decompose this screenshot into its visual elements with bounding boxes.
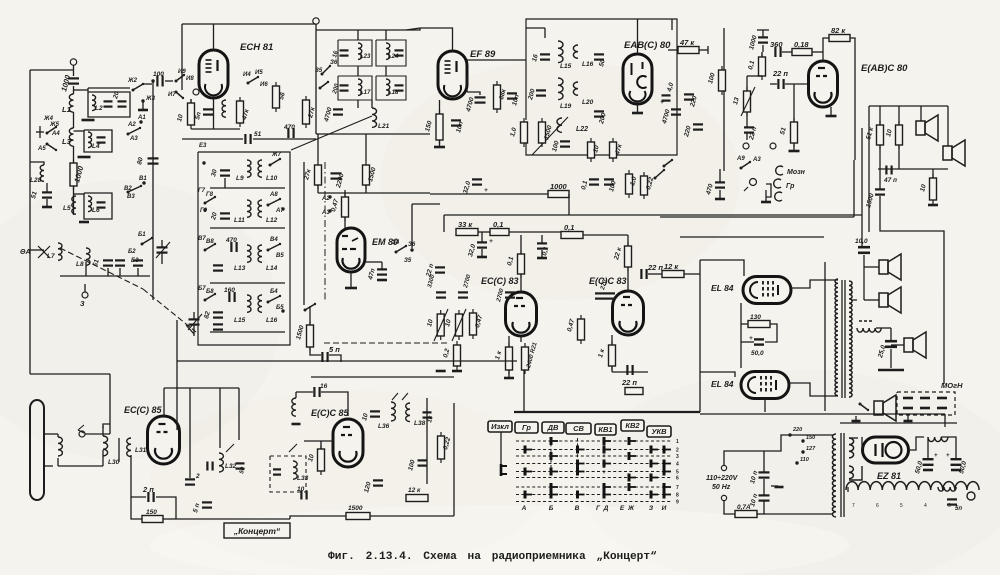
- contact G9: [203, 208, 206, 211]
- svg-text:E(AB)C 80: E(AB)C 80: [861, 63, 908, 74]
- ground: [42, 206, 52, 209]
- coupling coil left: [58, 437, 62, 456]
- svg-text:L15: L15: [560, 63, 572, 70]
- ground: [477, 256, 487, 259]
- wire: [793, 143, 795, 150]
- wire 1500 up: [365, 134, 367, 161]
- resistor 1.0: [521, 118, 528, 147]
- trimmer arrow: [156, 242, 170, 258]
- wire: [509, 231, 561, 233]
- svg-text:А: А: [521, 505, 527, 512]
- svg-text:L2: L2: [95, 105, 103, 112]
- svg-text:5 п: 5 п: [329, 345, 340, 354]
- ground: [292, 423, 301, 426]
- svg-text:8: 8: [676, 493, 679, 499]
- ground: [826, 115, 837, 118]
- wire 27k up: [317, 134, 319, 161]
- wire: [898, 145, 900, 169]
- switch contact c5 r7: [651, 491, 658, 499]
- capacitor 30: [220, 170, 230, 175]
- wire: [443, 215, 445, 232]
- capacitor 10 v: [207, 462, 212, 471]
- switch B8: [204, 293, 217, 302]
- capacitor 20: [118, 101, 127, 106]
- svg-text:И6: И6: [260, 82, 268, 88]
- svg-text:+: +: [946, 453, 950, 459]
- svg-text:В5: В5: [276, 253, 284, 259]
- wire: [406, 28, 420, 30]
- capacitor 50: [236, 463, 245, 468]
- capacitor 270: [595, 293, 605, 298]
- wire: [541, 235, 543, 243]
- tube E(AB)C 80: [809, 61, 838, 107]
- svg-text:L17: L17: [360, 90, 371, 96]
- dashed shield L33: [270, 456, 306, 492]
- svg-text:Ж2: Ж2: [127, 78, 138, 84]
- contact A7: [281, 207, 284, 210]
- capacitor 22p: [744, 127, 754, 132]
- trimmer arrows L36: [392, 393, 408, 400]
- svg-text:150: 150: [806, 435, 815, 441]
- svg-text:2: 2: [195, 473, 200, 480]
- svg-text:EC(C) 83: EC(C) 83: [481, 276, 519, 286]
- capacitor 5n: [947, 499, 957, 504]
- svg-text:Ж7: Ж7: [271, 152, 282, 158]
- wire base G3: [210, 282, 285, 284]
- capacitor: [213, 265, 223, 270]
- capacitor 2700: [458, 292, 468, 297]
- switch A5: [46, 143, 58, 152]
- transformer core line 1: [841, 280, 843, 398]
- capacitor 51: [42, 192, 52, 197]
- wire: [880, 196, 944, 292]
- wire: [478, 231, 490, 233]
- ground: [789, 150, 800, 153]
- resistor 27k: [315, 161, 322, 189]
- ground: [775, 486, 784, 489]
- svg-text:47 к: 47 к: [679, 38, 695, 47]
- inductor L24: [386, 43, 390, 59]
- tube EL 84 bottom: [741, 372, 789, 399]
- svg-text:1000: 1000: [550, 182, 568, 191]
- switch I5: [247, 76, 260, 85]
- jack Mozn: [776, 166, 783, 175]
- svg-text:+: +: [934, 453, 938, 459]
- wire base G2: [210, 227, 285, 229]
- wire cap mid gnd: [771, 485, 778, 487]
- ground: [78, 156, 91, 159]
- inductor L7: [58, 243, 62, 260]
- wire antenna lead-in: [73, 65, 75, 76]
- switch contact c6 r7: [664, 491, 671, 499]
- wire: [30, 249, 44, 251]
- wire: [719, 190, 721, 198]
- wire EF89 top feed: [420, 28, 453, 50]
- button КВ1: [595, 424, 616, 435]
- svg-text:+: +: [749, 335, 753, 342]
- switch contact c2 r3: [578, 460, 585, 468]
- Izkl contact: [501, 464, 507, 476]
- wire bottom long3: [370, 515, 454, 517]
- jack: [743, 143, 749, 149]
- resistor 1k: [506, 343, 513, 374]
- switch V5: [267, 243, 282, 252]
- capacitor 0.1: [537, 243, 547, 248]
- wire: [102, 426, 104, 436]
- heater winding 2: [849, 466, 853, 479]
- shield box L4: [84, 130, 112, 152]
- svg-text:Ж5: Ж5: [49, 122, 60, 128]
- capacitor 22pb: [605, 293, 615, 298]
- capacitor 32.0: [477, 242, 487, 247]
- svg-text:КВ2: КВ2: [625, 421, 640, 430]
- wire cathode drop: [523, 370, 525, 411]
- wire: [73, 186, 75, 215]
- wire bus x153: [152, 81, 154, 300]
- svg-text:L32: L32: [225, 463, 237, 470]
- wire: [763, 479, 765, 495]
- inductor L-osc: [222, 100, 226, 117]
- capacitor 3300: [436, 292, 446, 297]
- switch cross: [38, 246, 50, 258]
- capacitor electrolytic 4.0: [662, 95, 671, 100]
- wire x429: [426, 398, 428, 484]
- wire rect out: [861, 437, 863, 450]
- wire: [763, 501, 765, 514]
- svg-text:+: +: [484, 187, 488, 194]
- resistor 0.1b: [561, 232, 583, 239]
- capacitor 1500: [875, 189, 885, 194]
- inductor L6: [88, 196, 92, 212]
- wire: [481, 232, 483, 242]
- switch K2: [304, 303, 317, 312]
- wire K2 up: [303, 162, 305, 305]
- capacitor 22p low: [627, 365, 632, 375]
- paper shade 1: [380, 60, 740, 300]
- capacitor electro 32.0b: [472, 179, 482, 184]
- wire to L30: [103, 424, 110, 428]
- tube EC(C) 85: [148, 416, 180, 464]
- wire: [520, 235, 522, 254]
- ground: [82, 119, 95, 122]
- tube EC(C) 83: [506, 292, 537, 336]
- inductor L17: [358, 79, 362, 95]
- capacitor 22p: [778, 79, 783, 89]
- wire: [612, 371, 648, 373]
- capacitor 5p b: [322, 352, 327, 362]
- capacitor 51: [245, 134, 250, 144]
- wire fb loop: [296, 391, 313, 393]
- switch matrix row 6: [516, 477, 672, 479]
- inductor L19: [558, 78, 563, 100]
- wire: [73, 146, 75, 163]
- wire spk bus: [863, 255, 865, 300]
- section divider dash-dot: [324, 162, 326, 300]
- potentiometer 10a: [437, 310, 444, 340]
- wire: [30, 162, 44, 165]
- wire el84 bot in: [700, 372, 735, 377]
- wire: [344, 217, 346, 228]
- wire: [107, 268, 109, 276]
- wire: [156, 497, 176, 519]
- switch Zh2: [132, 83, 145, 92]
- capacitor 10p: [451, 120, 461, 125]
- wire HV left: [847, 487, 849, 492]
- inductor L8: [86, 248, 90, 265]
- wire: [193, 312, 195, 319]
- resistor 1000: [548, 191, 569, 198]
- svg-text:L14: L14: [266, 265, 278, 272]
- resistor 130: [748, 321, 770, 328]
- switch contact c3 r6: [604, 483, 611, 491]
- switch contact c6 r3: [664, 460, 671, 468]
- svg-text:З6: З6: [330, 60, 338, 66]
- wire: [53, 433, 58, 435]
- coupling line: [118, 438, 120, 462]
- svg-text:L28: L28: [30, 177, 42, 184]
- switch I7: [175, 91, 185, 100]
- switch I9: [175, 74, 186, 83]
- junction: [151, 79, 154, 82]
- wire: [191, 128, 240, 130]
- svg-text:9: 9: [676, 500, 679, 506]
- wire x177: [176, 320, 178, 430]
- svg-text:+: +: [489, 238, 493, 245]
- wire: [864, 266, 879, 268]
- switch Z3: [319, 81, 330, 90]
- ground: [904, 420, 913, 423]
- wire left bus: [30, 69, 74, 71]
- wire: [583, 234, 628, 236]
- switch matrix row 9: [516, 501, 672, 503]
- resistor 10: [896, 121, 903, 149]
- svg-text:Б4: Б4: [270, 289, 278, 295]
- svg-text:L5: L5: [63, 205, 71, 212]
- wire: [467, 92, 480, 95]
- svg-text:L16: L16: [266, 317, 278, 324]
- svg-text:EL 84: EL 84: [711, 283, 734, 293]
- arrow break top: [78, 425, 84, 433]
- svg-text:6: 6: [676, 476, 679, 482]
- tap 150: [801, 439, 804, 442]
- contact G: [202, 161, 205, 164]
- shield box coil bank: [198, 152, 290, 345]
- wire: [366, 261, 382, 263]
- transformer core line 2: [844, 280, 846, 398]
- svg-text:Ж3: Ж3: [145, 96, 156, 102]
- switch contact c1 r6: [551, 483, 558, 491]
- svg-text:0,1: 0,1: [493, 220, 503, 229]
- wire: [611, 366, 613, 372]
- inductor L23: [358, 43, 362, 59]
- svg-text:150: 150: [146, 509, 157, 516]
- wire: [684, 273, 700, 275]
- wire: [344, 190, 346, 197]
- wire x310 1500: [309, 306, 311, 325]
- svg-text:110: 110: [800, 457, 809, 463]
- switch contact c3 r0: [604, 437, 611, 445]
- wire: [74, 193, 85, 195]
- speaker S3: [879, 254, 901, 280]
- wire: [74, 130, 85, 132]
- switch contact c5 r1: [651, 446, 658, 454]
- antenna terminal A1: [70, 59, 76, 65]
- wire: [119, 268, 121, 276]
- wire y134 bus: [316, 133, 430, 135]
- wire heater 1: [849, 437, 858, 439]
- wire: [137, 268, 139, 276]
- button КВ2: [621, 420, 644, 431]
- coil fb: [292, 398, 296, 416]
- tube ECH 81: [199, 50, 228, 98]
- button Гр: [515, 422, 538, 433]
- wire: [385, 30, 387, 40]
- resistor 68k: [494, 81, 501, 113]
- svg-text:Б2: Б2: [128, 249, 136, 255]
- speaker top 2: [943, 140, 965, 166]
- wire: [57, 434, 59, 437]
- wire jack: [744, 187, 748, 191]
- potentiometer 10b: [456, 310, 463, 340]
- switch Z5: [321, 65, 332, 76]
- wire x700 vertical: [699, 260, 701, 412]
- svg-text:Б8: Б8: [206, 289, 214, 295]
- paper shade 3: [580, 370, 1000, 575]
- svg-text:360: 360: [770, 40, 783, 49]
- choke coil: [857, 328, 881, 332]
- inductor L15: [558, 41, 563, 63]
- svg-text:33 к: 33 к: [458, 220, 473, 229]
- trimmer arrow L32: [226, 444, 234, 452]
- capacitor 1000: [758, 37, 768, 42]
- svg-text:МОгН: МОгН: [941, 381, 963, 390]
- capacitor 1000: [68, 78, 79, 83]
- wire ECH top lead: [213, 24, 215, 50]
- wire: [142, 101, 144, 109]
- wire cathode join: [740, 303, 742, 368]
- wire: [627, 235, 629, 246]
- svg-text:EAB(C) 80: EAB(C) 80: [624, 40, 671, 51]
- svg-text:6: 6: [876, 503, 879, 509]
- resistor 0.22: [641, 172, 648, 199]
- svg-text:1: 1: [676, 439, 679, 445]
- switch G8: [204, 196, 217, 205]
- svg-text:L38: L38: [414, 420, 426, 427]
- svg-text:L36: L36: [378, 423, 390, 430]
- svg-text:УКВ: УКВ: [651, 427, 667, 436]
- variable capacitor: [157, 247, 168, 252]
- wire: [741, 341, 754, 343]
- wire base G1: [210, 187, 285, 189]
- capacitor: [213, 324, 223, 329]
- inductor L38: [406, 403, 410, 422]
- resistor 1.0v: [626, 170, 633, 198]
- wire: [143, 83, 152, 85]
- wire: [890, 349, 892, 368]
- resistor 150: [436, 110, 443, 144]
- capacitor 2700b: [505, 292, 515, 297]
- wire: [304, 440, 333, 442]
- ground bar: [878, 369, 904, 372]
- mechanical link dashed: [143, 289, 196, 332]
- wire left bus vertical: [29, 70, 31, 374]
- jack Gr 1: [774, 179, 781, 188]
- wire: [219, 388, 221, 448]
- wire x451: [453, 403, 455, 516]
- wire fb loop2: [321, 392, 348, 416]
- switch top right2: [663, 159, 674, 168]
- switch contact c4 r5: [629, 474, 636, 482]
- inductor L1: [69, 94, 73, 112]
- svg-text:L31: L31: [135, 447, 147, 454]
- wire left bus bottom: [30, 373, 110, 375]
- tube EAB(C) 80: [623, 54, 652, 104]
- wire ant to L30: [58, 465, 103, 467]
- inductor L2: [92, 95, 96, 111]
- svg-text:127: 127: [806, 446, 816, 452]
- wire y237: [680, 236, 824, 238]
- resistor 1000 R: [70, 159, 77, 190]
- tube EL 84 top: [743, 277, 791, 304]
- svg-text:З5: З5: [404, 258, 412, 264]
- tap 110: [795, 461, 798, 464]
- capacitor 16 r: [423, 412, 432, 417]
- wire y194: [430, 193, 548, 195]
- wire heavy bus y412: [514, 411, 700, 413]
- capacitor 80: [148, 158, 159, 163]
- matrix column dashed 2: [577, 438, 579, 475]
- capacitor 160: [229, 292, 234, 302]
- wire ez right: [909, 437, 924, 450]
- resistor 0.1 v: [518, 250, 525, 278]
- svg-text:51: 51: [254, 131, 262, 138]
- inductor L13: [247, 245, 251, 262]
- wire: [762, 45, 764, 52]
- wire: [189, 388, 191, 478]
- svg-text:L30: L30: [108, 459, 120, 466]
- switch A2: [127, 127, 142, 136]
- button ДВ: [542, 422, 564, 433]
- svg-text:4: 4: [924, 503, 927, 509]
- button СВ: [566, 423, 591, 434]
- resistor 22k: [625, 242, 632, 271]
- wire: [876, 327, 891, 329]
- svg-text:КВ1: КВ1: [598, 425, 612, 434]
- svg-text:Мозн: Мозн: [787, 169, 806, 176]
- svg-text:0,1: 0,1: [564, 223, 574, 232]
- inductor L12: [258, 200, 262, 217]
- wire: [864, 299, 879, 301]
- wire: [163, 518, 176, 520]
- switch B2: [127, 185, 143, 194]
- end terminal: [967, 492, 975, 500]
- contact A3: [328, 209, 331, 212]
- resistor 0.2: [454, 341, 461, 370]
- wire y423 bottom right: [840, 422, 957, 424]
- svg-text:З5: З5: [315, 68, 323, 74]
- resistor 100: [719, 66, 726, 95]
- svg-text:L19: L19: [560, 103, 572, 110]
- svg-text:И4: И4: [243, 72, 251, 78]
- switch contact c5 r3: [651, 460, 658, 468]
- switch contact c1 r0: [551, 437, 558, 445]
- wire Z6 corner: [412, 203, 440, 205]
- switch sp: [859, 403, 870, 412]
- wire top bus B: [164, 387, 239, 389]
- capacitor 4700: [671, 109, 681, 114]
- svg-text:L10: L10: [266, 175, 278, 182]
- wire: [508, 370, 510, 377]
